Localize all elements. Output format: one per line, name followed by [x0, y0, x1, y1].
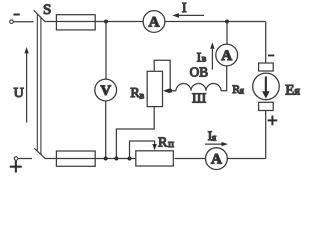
svg-text:в: в	[202, 55, 207, 65]
plus (machine lower polarity)	[268, 116, 278, 126]
wire (ammeter to top-right corner)	[165, 21, 266, 23]
voltmeter V	[95, 79, 117, 101]
minus (machine upper polarity)	[268, 55, 274, 57]
svg-text:V: V	[100, 83, 111, 99]
svg-text:я: я	[240, 86, 244, 96]
wire (plus terminal to switch)	[18, 158, 32, 160]
svg-text:U: U	[14, 86, 24, 101]
machine armature Ея: body circle with EMF arrow	[253, 73, 280, 100]
node (top junction to voltmeter)	[104, 20, 108, 24]
voltmeter V branch wire (top)	[105, 22, 107, 80]
rheostat Rв (field)	[130, 60, 176, 106]
wire (machine to bottom rail)	[265, 111, 267, 159]
label Rя	[232, 82, 244, 96]
ammeter A (armature current Iя)	[206, 148, 228, 170]
svg-text:п: п	[168, 139, 174, 150]
node (Rп wiper to bottom rail)	[128, 157, 132, 161]
svg-text:S: S	[43, 2, 51, 18]
svg-text:I: I	[182, 0, 187, 15]
machine armature Ея: brush (top)	[259, 63, 274, 71]
wire (terminal to switch blade)	[13, 21, 33, 23]
current arrow I	[172, 0, 204, 18]
node (top junction to field ammeter)	[225, 20, 229, 24]
wire (Rп to armature ammeter)	[175, 158, 206, 160]
wire (top-right corner down to machine)	[265, 22, 267, 64]
field winding ОВ (shunt, Ш)	[176, 64, 221, 106]
wire (Rв bottom lead to bottom rail)	[116, 107, 154, 159]
wire (switch to bottom fuse)	[45, 158, 57, 160]
svg-text:Е: Е	[285, 82, 294, 98]
ammeter A (field current Iв)	[216, 44, 238, 66]
wire (ammeter to bottom-right corner)	[227, 158, 265, 160]
svg-text:A: A	[211, 152, 222, 168]
wire (field ammeter down to winding)	[221, 66, 227, 91]
voltmeter V branch wire (bottom)	[105, 101, 107, 159]
wire (top node down to field ammeter)	[226, 22, 228, 45]
starting rheostat Rп	[130, 136, 175, 166]
fuse F1 (top)	[56, 15, 95, 30]
wire (switch to fuse, top rail)	[45, 21, 57, 23]
node (Rв lead to bottom rail)	[114, 157, 118, 161]
svg-text:R: R	[158, 136, 168, 151]
wire (fuse to ammeter)	[95, 21, 143, 23]
svg-text:в: в	[140, 91, 145, 101]
svg-text:A: A	[221, 48, 232, 64]
terminal minus (top-left supply terminal)	[10, 14, 20, 24]
switch S	[34, 2, 52, 159]
current arrow Iв	[197, 42, 215, 69]
machine armature Ея: brush (bottom)	[259, 102, 274, 110]
ammeter A (line current)	[143, 11, 165, 33]
label Ея	[285, 82, 300, 98]
svg-text:I: I	[197, 49, 201, 64]
svg-text:Ш: Ш	[192, 91, 206, 106]
svg-text:A: A	[149, 14, 160, 30]
current arrow Iя	[205, 128, 228, 146]
svg-text:ОВ: ОВ	[190, 64, 209, 79]
svg-text:я: я	[212, 134, 217, 144]
wire (bottom rail, fuse to Rп)	[95, 158, 136, 160]
node (voltmeter to bottom rail)	[104, 157, 108, 161]
terminal plus (bottom-left supply terminal)	[10, 157, 22, 173]
svg-text:я: я	[294, 83, 300, 97]
voltage arrow U	[14, 47, 29, 123]
fuse F2 (bottom)	[56, 151, 95, 166]
